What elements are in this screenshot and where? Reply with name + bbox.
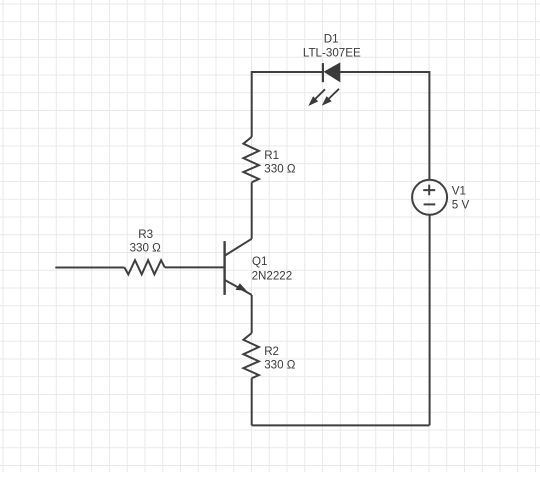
wire R1 top to LED D1 cathode (top-left corner): [252, 72, 323, 137]
V1 circle body: [412, 180, 447, 215]
wire bottom-left corner up to R2 bottom: [251, 378, 253, 425]
V1 minus sign: [424, 203, 436, 205]
Q1 emitter lead: [225, 280, 252, 295]
Q1 emitter arrowhead: [236, 283, 247, 291]
wire LED D1 anode to top-right corner down to V1 plus terminal: [340, 72, 430, 180]
voltage source V1: [412, 180, 469, 215]
wire R3 right lead to Q1 base: [165, 266, 224, 268]
transistor Q1: [225, 239, 293, 295]
resistor R3: [124, 228, 164, 274]
wire V1 minus terminal down right side: [429, 215, 431, 425]
svg-text:LTL-307EE: LTL-307EE: [303, 46, 361, 59]
wire Q1 emitter to R2 top: [251, 295, 253, 333]
R3 zigzag body: [124, 260, 164, 274]
wire R1 bottom to Q1 collector: [251, 182, 253, 239]
svg-text:R3: R3: [138, 228, 153, 241]
D1 anode triangle: [325, 63, 340, 81]
R2 zigzag body: [243, 333, 259, 378]
svg-text:D1: D1: [324, 33, 339, 46]
D1 emission arrow 2: [325, 89, 339, 103]
svg-text:Q1: Q1: [252, 255, 267, 268]
R1 zigzag body: [243, 137, 259, 182]
wire input to R3 left lead: [55, 267, 124, 269]
D1 emission arrow 1: [312, 89, 326, 102]
svg-text:5 V: 5 V: [452, 198, 470, 211]
LED D1: [303, 33, 361, 106]
svg-text:R2: R2: [264, 345, 279, 358]
svg-text:330 Ω: 330 Ω: [130, 242, 162, 255]
svg-text:R1: R1: [264, 149, 279, 162]
svg-text:2N2222: 2N2222: [252, 269, 293, 282]
Q1 base bar: [223, 241, 225, 295]
svg-text:V1: V1: [452, 184, 466, 197]
svg-text:330 Ω: 330 Ω: [264, 163, 296, 176]
V1 plus sign: [423, 185, 435, 196]
wire bottom rail: [252, 424, 430, 426]
resistor R1: [243, 137, 295, 182]
resistor R2: [243, 333, 295, 378]
Q1 collector lead: [225, 239, 252, 256]
svg-text:330 Ω: 330 Ω: [264, 359, 296, 372]
D1 cathode bar: [322, 63, 324, 82]
